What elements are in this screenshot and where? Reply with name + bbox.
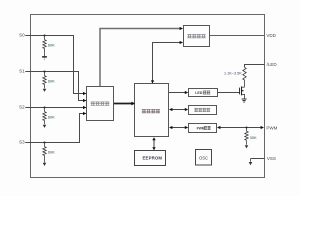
svg-text:1.1K~3.5K: 1.1K~3.5K: [224, 71, 242, 75]
svg-text:60K: 60K: [48, 149, 55, 154]
svg-text:LED: LED: [195, 91, 202, 95]
svg-text:VSS: VSS: [267, 156, 276, 161]
svg-text:OSC: OSC: [199, 156, 208, 161]
svg-text:PWM: PWM: [266, 125, 277, 130]
svg-text:30K: 30K: [250, 135, 257, 140]
svg-text:S2: S2: [19, 105, 25, 110]
svg-text:/LED: /LED: [267, 62, 278, 67]
svg-text:60K: 60K: [48, 78, 55, 83]
svg-text:PWM: PWM: [197, 126, 205, 130]
svg-text:S3: S3: [19, 140, 25, 145]
svg-text:S0: S0: [19, 33, 25, 38]
svg-text:VDD: VDD: [266, 33, 276, 38]
svg-text:EEPROM: EEPROM: [143, 156, 163, 161]
svg-text:S1: S1: [19, 69, 25, 74]
svg-text:60K: 60K: [48, 114, 55, 119]
svg-text:60K: 60K: [48, 42, 55, 47]
